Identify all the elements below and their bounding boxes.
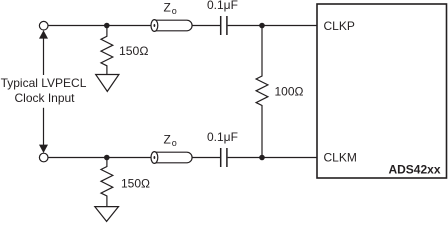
ADC box ADS42xx <box>317 4 447 178</box>
svg-text:CLKM: CLKM <box>324 150 357 164</box>
wire bottom rail: Zo to capacitor <box>192 157 220 159</box>
junction dot top-right <box>259 23 265 29</box>
wire bottom rail: terminal to Zo <box>48 157 152 159</box>
terminal top input circle <box>39 21 48 30</box>
capacitor C 0.1uF top <box>220 16 222 35</box>
ground top <box>96 75 119 92</box>
svg-text:o: o <box>172 6 177 16</box>
svg-text:150Ω: 150Ω <box>121 177 150 191</box>
wire bottom rail: capacitor to CLKM pin <box>228 157 317 159</box>
svg-text:Clock Input: Clock Input <box>14 91 75 105</box>
svg-text:0.1μF: 0.1μF <box>207 130 238 144</box>
svg-text:Typical LVPECL: Typical LVPECL <box>1 76 87 90</box>
svg-text:CLKP: CLKP <box>324 19 355 33</box>
svg-text:Z: Z <box>164 1 171 15</box>
transmission line Zo bottom <box>151 152 192 163</box>
resistor R 150 ohm top <box>101 26 113 75</box>
terminal bottom input circle <box>39 153 48 162</box>
wire top rail: capacitor to CLKP pin <box>228 25 317 27</box>
resistor R 150 ohm bottom <box>101 158 113 207</box>
capacitor C 0.1uF bottom <box>220 148 222 167</box>
junction dot bottom-left <box>104 155 110 161</box>
resistor R 100 ohm middle <box>256 26 268 158</box>
junction dot bottom-right <box>259 155 265 161</box>
transmission line Zo top <box>151 20 192 31</box>
arrow up at top terminal <box>43 38 45 76</box>
arrow down at bottom terminal <box>43 108 45 146</box>
svg-text:0.1μF: 0.1μF <box>207 0 238 12</box>
wire top rail: terminal to Zo <box>48 25 152 27</box>
ground bottom <box>95 207 119 222</box>
svg-text:o: o <box>172 138 177 148</box>
svg-text:Z: Z <box>164 133 171 147</box>
wire top rail: Zo to capacitor <box>192 25 220 27</box>
svg-text:100Ω: 100Ω <box>275 85 304 99</box>
junction dot top-left <box>104 23 110 29</box>
svg-text:150Ω: 150Ω <box>119 44 148 58</box>
svg-text:ADS42xx: ADS42xx <box>388 162 440 176</box>
